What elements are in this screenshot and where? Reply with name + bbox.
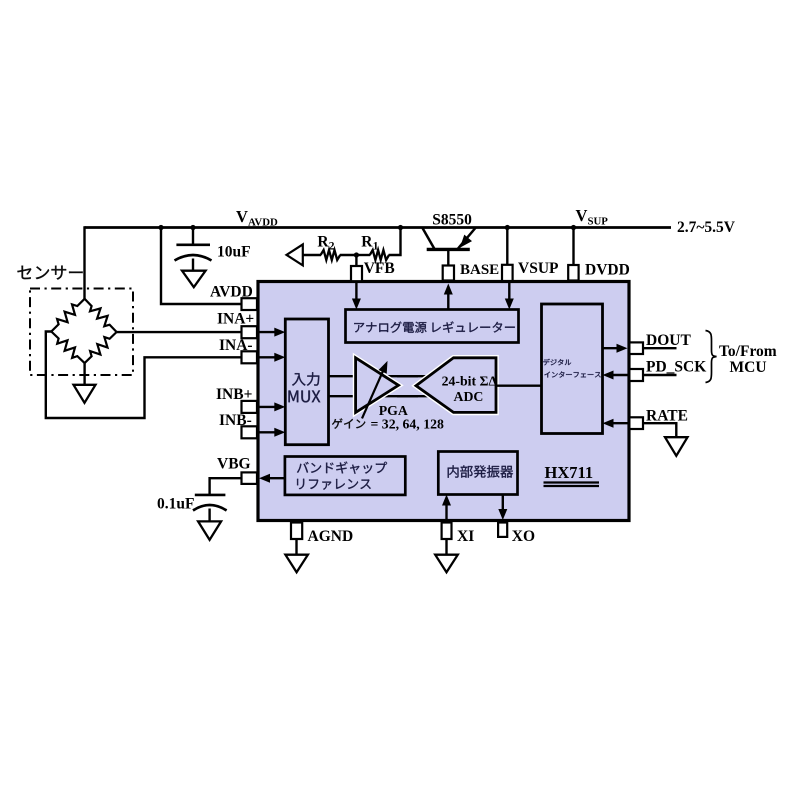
block analog supply regulator アナログ電源レギュレーター	[346, 310, 519, 343]
svg-text:V: V	[236, 207, 248, 226]
label R2	[317, 234, 334, 253]
label ADC	[454, 389, 484, 404]
svg-text:HX711: HX711	[545, 463, 594, 482]
block internal oscillator 内部発振器	[438, 452, 517, 495]
wire+arrow RATE in	[603, 419, 630, 428]
wire+arrow XI into oscillator	[442, 495, 451, 522]
svg-text:AVDD: AVDD	[248, 217, 278, 229]
transistor Q1 S8550 (PNP)	[422, 228, 476, 267]
pin AGND	[291, 523, 302, 540]
wire+arrow INA+ into MUX	[257, 328, 285, 337]
node VFB junction	[354, 252, 359, 257]
ground bridge	[74, 385, 96, 403]
label sensor センサー	[17, 266, 82, 280]
node junction R1 rail	[398, 225, 403, 230]
label XO	[512, 528, 535, 545]
label MCU	[730, 359, 767, 376]
wire V_AVDD/V_SUP supply rail	[85, 226, 672, 229]
svg-text:S8550: S8550	[432, 212, 472, 229]
pin DOUT	[629, 342, 643, 354]
label INB+	[216, 386, 253, 403]
label PGA	[379, 403, 408, 418]
svg-text:R: R	[361, 234, 373, 251]
svg-text:R: R	[317, 234, 329, 251]
pin VBG	[242, 472, 258, 484]
wire+arrow DOUT out	[603, 344, 628, 353]
label AVDD	[210, 284, 253, 301]
svg-text:10uF: 10uF	[217, 244, 251, 261]
wire+arrow INA- into MUX	[257, 353, 285, 362]
svg-text:ADC: ADC	[454, 389, 484, 404]
pin PD_SCK	[629, 369, 643, 381]
wire ADC to digital interface	[496, 385, 542, 387]
svg-text:SUP: SUP	[588, 216, 609, 228]
pin INB+	[242, 401, 258, 413]
IC HX711 body	[258, 282, 629, 521]
wire RATE to ground	[643, 423, 676, 438]
label INA+	[217, 311, 254, 328]
svg-text:MCU: MCU	[730, 359, 767, 376]
svg-text:INB-: INB-	[219, 412, 252, 429]
svg-text:RATE: RATE	[646, 408, 688, 425]
label gain ゲイン = 32, 64, 128	[332, 416, 444, 431]
pin AVDD	[242, 298, 258, 310]
block input MUX 入力MUX	[285, 319, 328, 445]
pin INB-	[242, 426, 258, 438]
wire AGND to ground	[295, 539, 297, 556]
wire R2 to VFB node	[340, 254, 357, 256]
label INA-	[219, 337, 253, 354]
pin VSUP	[502, 265, 513, 281]
wire VSUP drop	[506, 228, 508, 267]
svg-text:INA+: INA+	[217, 311, 254, 328]
resistor bridge R-bottom-right	[85, 332, 117, 363]
svg-text:0.1uF: 0.1uF	[157, 496, 194, 513]
wire PD_SCK stub	[643, 374, 677, 376]
wire R1 to rail	[356, 228, 400, 256]
node junction AVDD drop	[158, 225, 163, 230]
block bandgap reference バンドギャップリファレンス	[285, 457, 405, 495]
wire XI to ground	[445, 539, 447, 556]
label To/From	[719, 343, 777, 360]
wire bridge bottom to ground	[83, 363, 85, 385]
svg-text:XI: XI	[457, 528, 474, 545]
wire DOUT stub	[643, 347, 677, 349]
pin INA-	[242, 351, 258, 363]
wire+arrow oscillator to XO	[498, 495, 507, 521]
op-amp PGA triangle	[356, 358, 399, 413]
wire DVDD drop	[572, 228, 574, 267]
resistor bridge R-top-left	[51, 299, 84, 332]
wire arrow to R2	[303, 254, 321, 256]
label INB-	[219, 412, 252, 429]
resistor R1	[370, 250, 389, 260]
svg-text:= 32, 64, 128: = 32, 64, 128	[371, 416, 444, 431]
label HX711	[544, 463, 600, 486]
label V_AVDD	[236, 207, 278, 229]
wire+arrow PD_SCK in	[603, 371, 630, 380]
wire 10uF top lead	[192, 228, 194, 246]
capacitor C1 10uF	[175, 245, 212, 271]
label 24-bit ΣΔ	[442, 373, 498, 388]
label XI	[457, 528, 474, 545]
pin VFB	[351, 266, 362, 281]
label VBG	[217, 456, 251, 473]
resistor bridge R-top-right	[85, 299, 117, 332]
svg-text:AGND: AGND	[308, 528, 354, 545]
svg-text:AVDD: AVDD	[210, 284, 253, 301]
resistor R2	[321, 250, 341, 260]
arrow open VFB out (left)	[287, 244, 303, 265]
wire INA+ from bridge	[117, 331, 242, 333]
arrow PGA gain (variable)	[362, 361, 388, 419]
svg-text:2.7~5.5V: 2.7~5.5V	[677, 219, 736, 236]
pin DVDD	[568, 265, 578, 281]
svg-text:XO: XO	[512, 528, 535, 545]
label PD_SCK	[646, 359, 706, 376]
svg-text:INB+: INB+	[216, 386, 253, 403]
svg-text:To/From: To/From	[719, 343, 777, 360]
wire AVDD feed	[161, 228, 242, 305]
ground 0.1uF	[198, 521, 221, 539]
label V_SUP	[576, 206, 609, 228]
pin INA+	[242, 326, 258, 338]
svg-text:INA-: INA-	[219, 337, 253, 354]
svg-text:DOUT: DOUT	[646, 332, 691, 349]
pin XO	[498, 523, 507, 537]
pin RATE	[629, 417, 643, 429]
block 24-bit sigma-delta ADC	[416, 358, 496, 413]
label S8550	[432, 212, 472, 229]
wire+arrow regulator to BASE	[444, 284, 453, 310]
label DVDD	[585, 262, 630, 279]
pin XI	[442, 523, 452, 540]
svg-text:PD_SCK: PD_SCK	[646, 359, 706, 376]
ground 10uF	[182, 271, 206, 288]
svg-text:DVDD: DVDD	[585, 262, 630, 279]
wire bridge excitation drop	[83, 226, 85, 299]
ground XI	[435, 555, 458, 573]
wire+arrow bandgap to VBG	[259, 474, 285, 483]
resistor bridge R-bottom-left	[51, 332, 84, 364]
label BASE	[460, 262, 499, 278]
pin BASE	[443, 266, 454, 281]
wire+arrow INB- into MUX	[257, 428, 285, 437]
sensor bridge dashed box	[30, 289, 133, 376]
svg-text:VFB: VFB	[364, 260, 395, 277]
label VFB	[364, 260, 395, 277]
ground RATE	[665, 437, 688, 456]
wire PGA-ADC mid band redraw	[397, 376, 418, 396]
wire+arrow INB+ into MUX	[257, 402, 285, 411]
label R1	[361, 234, 378, 253]
svg-text:VBG: VBG	[217, 456, 251, 473]
label 0.1uF	[157, 496, 194, 513]
label 2.7~5.5V supply voltage	[677, 219, 736, 236]
wire VFB stub	[355, 255, 357, 267]
wire VBG to 0.1uF	[210, 478, 243, 495]
wire+arrow VSUP into regulator	[505, 282, 514, 310]
capacitor C2 0.1uF	[193, 495, 227, 523]
label AGND	[308, 528, 354, 545]
node junction VSUP	[505, 225, 510, 230]
svg-text:2: 2	[329, 241, 335, 253]
label 10uF	[217, 244, 251, 261]
svg-text:V: V	[576, 206, 588, 225]
wire MUX to PGA differential pair	[329, 376, 453, 396]
brace To/From MCU	[706, 331, 717, 383]
svg-text:1: 1	[373, 241, 379, 253]
wire INA- loop	[46, 332, 242, 419]
label VSUP	[518, 260, 559, 277]
node junction DVDD	[571, 225, 576, 230]
svg-text:BASE: BASE	[460, 262, 499, 278]
node junction 10uF drop	[190, 225, 195, 230]
svg-text:VSUP: VSUP	[518, 260, 559, 277]
ground AGND	[285, 555, 308, 573]
block digital interface デジタルインターフェース	[542, 304, 603, 434]
wire+arrow VFB into regulator	[352, 282, 361, 310]
label RATE	[646, 408, 688, 425]
svg-text:24-bit ΣΔ: 24-bit ΣΔ	[442, 373, 498, 388]
label DOUT	[646, 332, 691, 349]
